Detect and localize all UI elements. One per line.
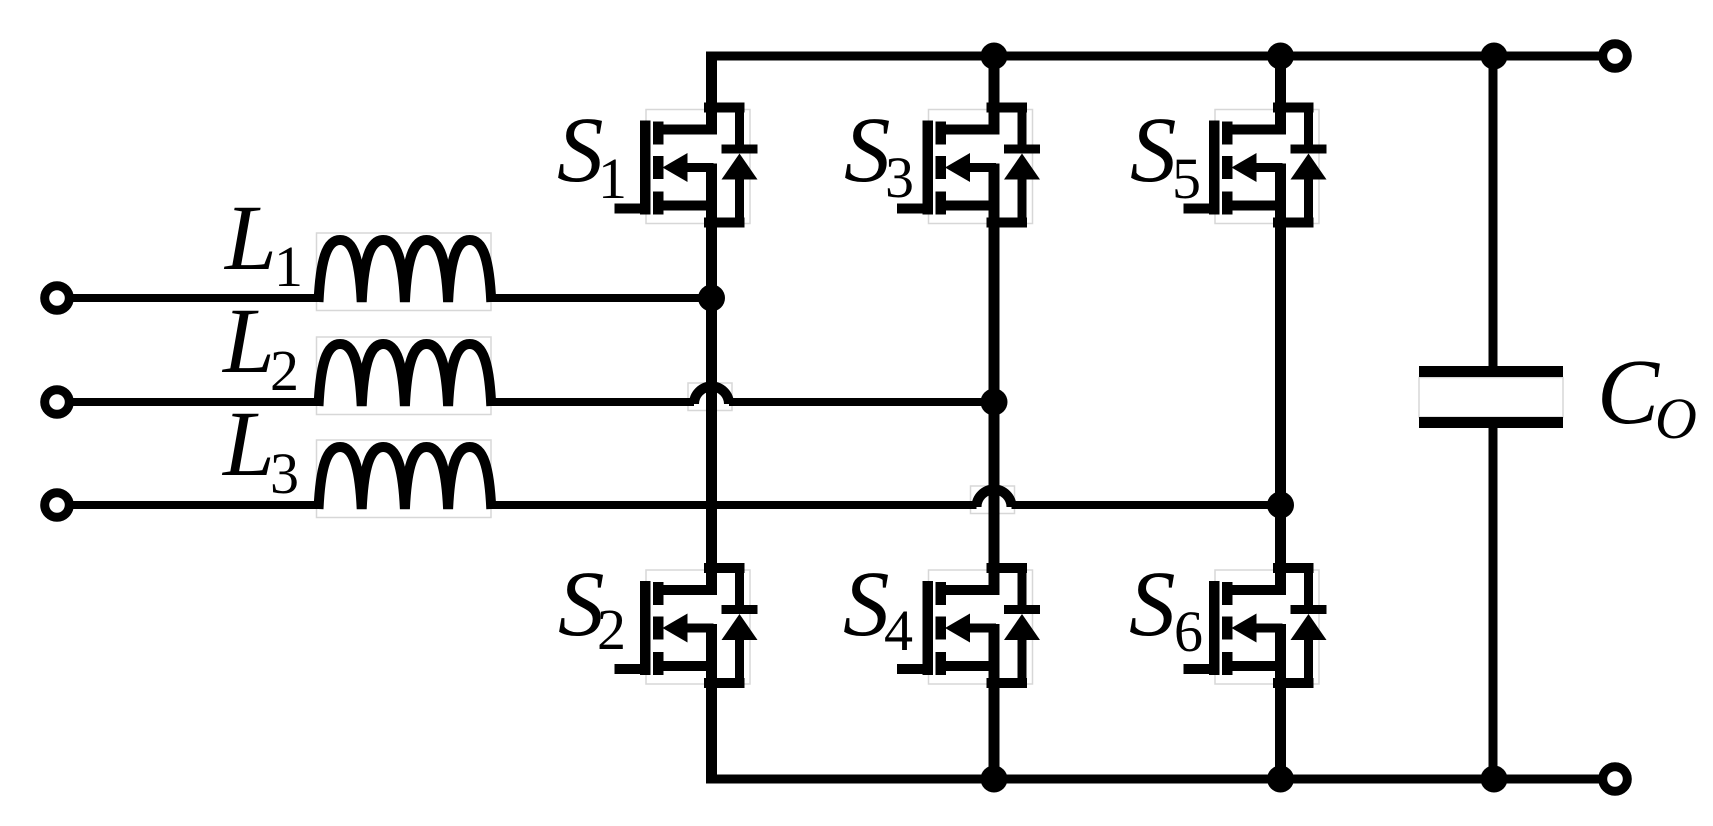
svg-text:S: S [843, 553, 890, 656]
junction dot top rail / leg2 [981, 43, 1008, 70]
transistor S6 (NMOS with body diode) [1184, 558, 1327, 698]
svg-text:1: 1 [598, 146, 627, 211]
input terminal phase 3 [45, 493, 70, 518]
wire bottom DC- rail [706, 775, 1599, 784]
wire leg1 lower (S2 source to bottom rail) [706, 686, 717, 784]
wire leg3 middle (S5 source to node C to S6 drain) [1275, 225, 1286, 570]
wire phase 3 input (terminal to L3) [70, 501, 320, 509]
svg-text:L: L [221, 290, 275, 393]
wire phase 2 input (terminal to L2) [70, 398, 320, 406]
svg-text:3: 3 [885, 145, 914, 210]
junction dot top rail / capacitor branch [1481, 43, 1508, 70]
junction dot bottom rail / capacitor branch [1481, 766, 1508, 793]
svg-text:6: 6 [1174, 599, 1203, 664]
capacitor Co top plate [1419, 366, 1563, 377]
input terminal phase 2 [45, 390, 70, 415]
svg-text:2: 2 [597, 597, 626, 662]
wire phase 1 input (terminal to L1) [70, 294, 320, 302]
wire phase 2 (hop to node B) [729, 398, 994, 406]
transistor S5 (NMOS with body diode) [1184, 98, 1327, 238]
svg-text:5: 5 [1172, 146, 1201, 211]
wire phase 2 (L2 to hop at leg1) [489, 398, 694, 406]
wire phase 3 (L3 to hop at leg2, crossing leg1) [489, 501, 977, 509]
svg-text:C: C [1597, 341, 1660, 444]
wire top DC+ rail [706, 52, 1599, 61]
inductor L2 [319, 344, 492, 406]
svg-text:S: S [1129, 553, 1176, 656]
transistor S2 (NMOS with body diode) [615, 558, 758, 698]
wire hop of phase 2 over leg1 [694, 387, 729, 405]
svg-text:4: 4 [884, 598, 913, 663]
svg-text:1: 1 [274, 234, 303, 299]
inductor L1 [319, 240, 492, 302]
capacitor Co branch wire upper [1489, 56, 1498, 368]
wire leg3 upper (rail to S5 drain) [1275, 52, 1286, 111]
wire phase 3 (hop to node C) [1012, 501, 1286, 509]
wire leg2 upper (rail to S3 drain) [989, 52, 1000, 111]
node A junction dot (leg1 / L1) [698, 285, 725, 312]
svg-text:S: S [557, 99, 604, 202]
svg-text:3: 3 [270, 441, 299, 506]
inductor L3 [319, 447, 492, 509]
output terminal DC+ [1603, 44, 1628, 69]
junction dot top rail / leg3 [1267, 43, 1294, 70]
node C junction dot (leg3 / L3) [1267, 492, 1294, 519]
node B junction dot (leg2 / L2) [981, 389, 1008, 416]
svg-text:L: L [221, 393, 275, 496]
transistor S4 (NMOS with body diode) [897, 558, 1040, 698]
wire leg2 lower (S4 source to bottom rail) [989, 686, 1000, 784]
wire leg1 middle (S1 source to node A to S2 drain) [706, 225, 717, 570]
wire leg2 middle (S3 source to node B to S4 drain) [989, 225, 1000, 570]
capacitor Co bottom plate [1419, 417, 1563, 428]
wire leg1 upper (rail to S1 drain) [706, 52, 717, 111]
wire phase 1 (L1 to node A) [489, 294, 716, 302]
transistor S1 (NMOS with body diode) [615, 98, 758, 238]
junction dot bottom rail / leg3 [1267, 766, 1294, 793]
output terminal DC- [1603, 767, 1628, 792]
svg-text:O: O [1655, 386, 1697, 451]
faint symbol boundary boxes [317, 233, 1564, 518]
svg-text:S: S [844, 99, 891, 202]
svg-text:L: L [223, 187, 277, 290]
svg-text:S: S [1130, 99, 1177, 202]
transistor S3 (NMOS with body diode) [897, 98, 1040, 238]
junction dot bottom rail / leg2 [981, 766, 1008, 793]
wire leg3 lower (S6 source to bottom rail) [1275, 686, 1286, 784]
input terminal phase 1 [45, 286, 70, 311]
capacitor Co branch wire lower [1489, 427, 1498, 779]
wire hop of phase 3 over leg2 [977, 490, 1012, 508]
